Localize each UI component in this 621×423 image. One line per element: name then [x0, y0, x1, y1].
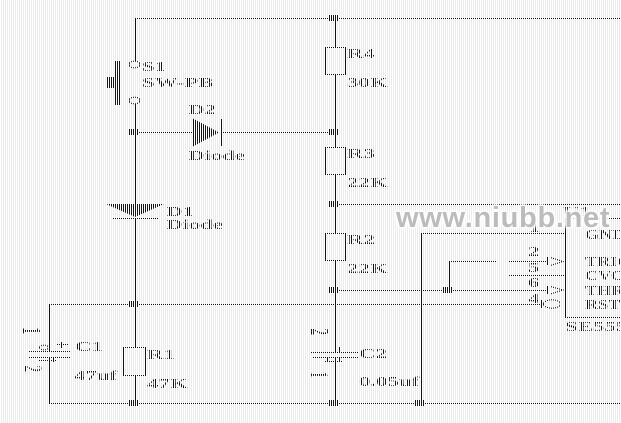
label R3 [347, 148, 375, 162]
pin number 1 of C2 rotated [306, 372, 332, 380]
op-amp U1 chip left edge [565, 218, 566, 317]
wire GND pin1 y233 [421, 233, 565, 234]
capacitor C2 top tick [339, 347, 340, 353]
wire D2 left y132 [136, 132, 192, 133]
capacitor C1 curve tick [53, 358, 54, 362]
label 22K R3 [347, 177, 388, 191]
wire RST y304 [49, 304, 541, 305]
pin number 4 [528, 293, 539, 307]
wire C1 down x49 [49, 357, 50, 403]
watermark www.niubb.net halo [396, 202, 610, 235]
pin 2 edge symbol tick [547, 257, 548, 265]
node junction 135,403 [129, 400, 139, 406]
diode D1 cathode bar [112, 218, 159, 219]
label SW-PB [142, 77, 213, 91]
label C1 [75, 341, 103, 355]
capacitor C2 curve ticks [327, 358, 328, 362]
wire C2 down x335 [335, 357, 336, 403]
pin 4 bubble tick [541, 300, 542, 308]
wire R1 bottom x135 [135, 376, 136, 403]
wire top rail y18 [135, 18, 621, 19]
wire bottom rail y403 [49, 403, 621, 404]
resistor R4 box [325, 47, 326, 75]
label SE555 [565, 321, 621, 335]
label S1 [142, 61, 166, 75]
label D2 Diode [188, 150, 245, 164]
label 47K [147, 378, 188, 392]
node junction 335,132 [329, 129, 339, 135]
label R2 [347, 234, 375, 248]
label R1 [147, 349, 175, 363]
pin 6 edge symbol tick [547, 286, 548, 294]
pin name THR [585, 285, 621, 299]
pin number 2 of C2 rotated [307, 329, 333, 337]
wire corner down to C1 x49 [49, 304, 50, 351]
wire gap artifact on pin2 wire [497, 258, 508, 264]
wire R2 to node x335 [335, 260, 336, 352]
node junction 335,204 [329, 201, 339, 207]
node junction 449,290 [443, 287, 453, 293]
node junction 335,18 [329, 15, 339, 21]
node junction 135,304 [129, 301, 139, 307]
switch S1 bridge bar [115, 61, 120, 105]
resistor R2 box [325, 233, 326, 261]
pin name RST [585, 299, 620, 313]
pin number 6 [528, 277, 539, 291]
wire S1 top drop x135 [135, 18, 136, 61]
op-amp U1 chip top edge [565, 218, 621, 219]
watermark www.niubb.net text [396, 202, 610, 235]
pin number 2 of C1 rotated [20, 366, 46, 374]
capacitor C2 curve mark [324, 361, 342, 362]
resistor R3 box [325, 147, 326, 175]
pin number 5 [528, 262, 539, 276]
pin name TRIG [585, 256, 621, 270]
node junction 335,290 [329, 287, 339, 293]
diode D2 cathode bar [221, 119, 222, 146]
wire GND down x421 [421, 233, 422, 403]
wire R3 to node x335 [335, 174, 336, 233]
wire D2 right y132 [222, 132, 335, 133]
wire TRIG to THR x449 [449, 261, 450, 290]
wire CVOLT stub y275 [509, 275, 565, 276]
wire S1 to D1 x135 [135, 104, 136, 204]
wire R4 to R3 x335 [335, 74, 336, 147]
wire D1 to node x135 [135, 219, 136, 347]
label D1 [166, 206, 194, 220]
pin number 1 of C1 rotated [19, 328, 45, 336]
wire TRIG y261 [450, 261, 547, 262]
label C2 [359, 348, 387, 362]
label 0.05uf [359, 376, 419, 390]
label 22K R2 [347, 263, 388, 277]
op-amp U1 chip bottom edge [565, 317, 621, 318]
capacitor C1 plus sign [57, 344, 68, 345]
pin name CVOLT [585, 270, 621, 284]
label 47uf [74, 370, 117, 384]
capacitor C1 curve mark [39, 360, 57, 361]
pin number 2 [528, 246, 539, 260]
capacitor C2 plate top [311, 352, 359, 353]
capacitor C1 plate bottom [29, 357, 70, 358]
capacitor C1 plate top [29, 351, 70, 352]
label U1 [563, 206, 591, 220]
pin number 1 [529, 222, 540, 236]
label D2 [188, 104, 216, 118]
node junction 421,403 [415, 400, 425, 406]
label 30K [347, 77, 388, 91]
node junction 335,403 [329, 400, 339, 406]
wire node to right edge y204 [336, 204, 621, 205]
wire THR y290 [336, 290, 547, 291]
capacitor C2 plate bottom [313, 357, 359, 358]
switch S1 stem [107, 77, 114, 88]
label R4 [347, 48, 375, 62]
resistor R1 box [123, 347, 124, 376]
node junction 135,132 [129, 129, 139, 135]
label D1 Diode [166, 219, 223, 233]
wire x335 rail top segment [335, 18, 336, 47]
pin name GND [585, 229, 621, 243]
